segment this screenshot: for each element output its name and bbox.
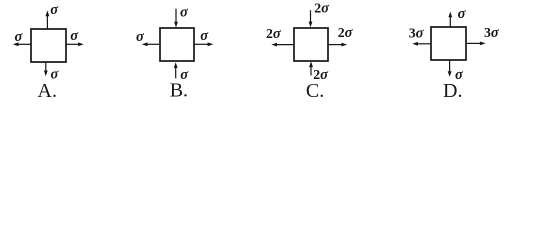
element C left arrow (outward): [271, 43, 294, 47]
element B square: [160, 28, 194, 61]
element A left arrow (outward): [13, 42, 31, 46]
svg-text:σ: σ: [15, 29, 24, 45]
element D top arrow (outward up): [448, 12, 452, 27]
svg-text:2σ: 2σ: [266, 26, 282, 42]
element D square: [431, 27, 466, 60]
element D right arrow (outward): [466, 42, 486, 46]
element C bottom arrow (inward up): [309, 61, 313, 75]
element C top arrow (inward down): [309, 10, 313, 27]
element A bottom arrow (outward down): [44, 62, 48, 76]
svg-text:σ: σ: [50, 2, 59, 18]
svg-text:C.: C.: [306, 80, 324, 102]
element D left arrow (outward): [412, 42, 431, 46]
svg-text:σ: σ: [200, 28, 209, 44]
element C right arrow (outward): [328, 43, 347, 47]
svg-text:2σ: 2σ: [338, 25, 354, 41]
element B right arrow (outward): [194, 42, 213, 46]
element A square: [31, 29, 66, 62]
element C square: [294, 28, 328, 61]
svg-text:3σ: 3σ: [409, 26, 425, 42]
element A right arrow (outward): [66, 42, 84, 46]
svg-text:A.: A.: [38, 80, 57, 102]
svg-text:σ: σ: [136, 29, 145, 45]
svg-text:B.: B.: [170, 80, 188, 102]
svg-text:2σ: 2σ: [314, 1, 330, 17]
svg-text:D.: D.: [443, 80, 462, 102]
svg-text:σ: σ: [180, 5, 189, 21]
element A top arrow (outward up): [46, 11, 50, 30]
svg-text:σ: σ: [70, 28, 79, 44]
element B left arrow (outward): [142, 42, 160, 46]
element B top arrow (inward down): [174, 9, 178, 28]
element B bottom arrow (inward up): [174, 62, 178, 78]
element D bottom arrow (outward down): [448, 60, 452, 77]
svg-text:3σ: 3σ: [484, 25, 500, 41]
svg-text:σ: σ: [458, 6, 467, 22]
